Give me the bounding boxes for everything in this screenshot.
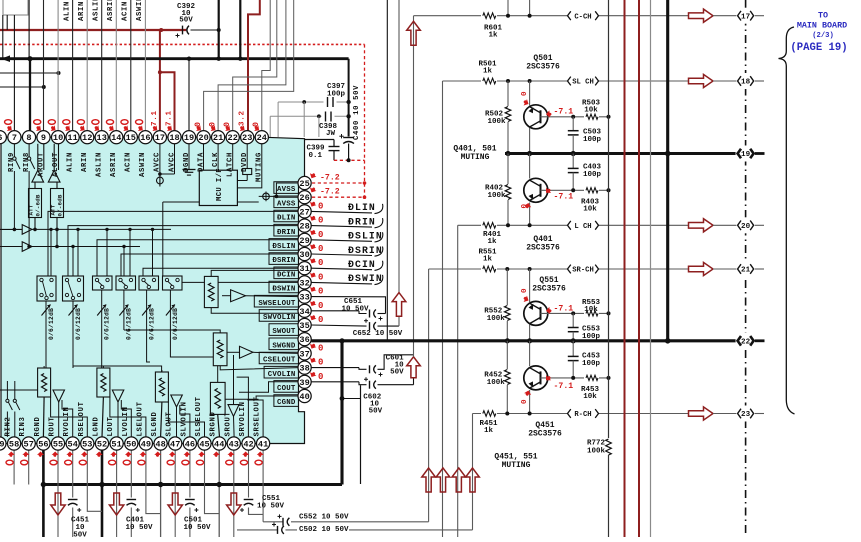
svg-text:JW: JW [326, 130, 336, 138]
svg-text:34: 34 [299, 307, 309, 317]
wire: thick vertical x=240.3 from top [239, 0, 241, 59]
capacitor C651 10 50V [311, 297, 385, 314]
variable attenuator 0/6/12dB 5 [146, 290, 148, 330]
svg-text:0/6/12dB: 0/6/12dB [75, 308, 82, 340]
IC block body (audio DSP/volume IC) [1, 137, 305, 443]
capacitor C652 10 50V [311, 325, 366, 326]
junction dots on black bus [27, 56, 32, 61]
signal arrow down (SR out) [227, 493, 241, 515]
pin 49 LSELOUT [139, 437, 152, 450]
wire: dark red branch to pin17/18 (7.1V) [159, 30, 161, 131]
svg-text:32: 32 [299, 278, 309, 288]
svg-text:0/6/12dB: 0/6/12dB [172, 308, 179, 340]
dash-dot board boundary line [745, 0, 747, 537]
capacitor C451 10 50V [68, 499, 78, 501]
svg-text:2SC3576: 2SC3576 [526, 244, 560, 253]
signal arrow up (C channel to C-CH row) [407, 21, 421, 45]
svg-text:MUTING: MUTING [502, 461, 531, 470]
SW channel resistor box [204, 276, 218, 307]
net DLIN [311, 211, 372, 213]
svg-text:15: 15 [126, 133, 136, 143]
svg-text:ĐCIN: ĐCIN [277, 271, 296, 279]
transistor Q551 (muting) [528, 267, 532, 271]
wire: DATA into MCU box [203, 144, 205, 170]
svg-text:100k: 100k [487, 315, 506, 323]
pin 28 ĐRIN [298, 219, 311, 232]
svg-text:LATCH: LATCH [227, 152, 235, 177]
svg-text:-7.1: -7.1 [554, 305, 574, 314]
connector <19> [736, 146, 756, 162]
connector <21> [736, 261, 756, 277]
wires: verticals from top to pins 9-16 [43, 0, 45, 131]
svg-text:0: 0 [318, 244, 323, 254]
pin 48 SLGND [154, 437, 167, 450]
svg-text:C652 10 50V: C652 10 50V [353, 330, 403, 338]
svg-text:36: 36 [299, 335, 309, 345]
svg-text:14: 14 [111, 133, 121, 143]
wire: mute control line x=608.5 [608, 0, 610, 438]
output stage amp triangle (group 2) [112, 390, 124, 402]
svg-text:41: 41 [258, 440, 268, 450]
wire: pin56 thick ground [42, 450, 45, 537]
svg-text:0: 0 [318, 372, 323, 382]
capacitor C501 10 50V [185, 499, 195, 501]
red 0 marker pin 35 [309, 313, 317, 321]
svg-text:ACIN: ACIN [125, 152, 133, 172]
svg-text:2SC3576: 2SC3576 [528, 430, 562, 439]
svg-text:57: 57 [24, 440, 34, 450]
svg-text:0/6/12dB: 0/6/12dB [48, 308, 55, 340]
svg-text:SRVOLIN: SRVOLIN [239, 401, 247, 436]
MCU I/F box [199, 170, 237, 205]
label -7.1 (Q451) [544, 374, 551, 382]
svg-text:10k: 10k [584, 306, 598, 314]
svg-text:SR-CH: SR-CH [572, 267, 594, 275]
net DCIN [311, 268, 372, 270]
svg-text:12: 12 [82, 133, 92, 143]
selector feed rail 1 [32, 228, 171, 230]
svg-text:1k: 1k [483, 256, 493, 264]
svg-text:17: 17 [741, 13, 751, 21]
net DRIN [311, 226, 372, 228]
channel label R-CH [567, 409, 599, 419]
signal arrows up (to mute transistors) [422, 468, 436, 492]
svg-text:23: 23 [242, 133, 252, 143]
svg-text:SLGND: SLGND [151, 411, 159, 436]
wire: Q401 base to mute line [541, 189, 609, 191]
wire: pin52 thick ground [101, 450, 104, 537]
wire: R-CH row [473, 413, 689, 415]
pin 39 COUT [298, 375, 311, 388]
wire: SR-CH row [429, 268, 689, 270]
svg-text:C400 10 50V: C400 10 50V [353, 85, 361, 140]
svg-text:ĐRIN: ĐRIN [277, 229, 296, 237]
svg-text:LVOLIN: LVOLIN [122, 406, 130, 436]
svg-text:25: 25 [299, 179, 309, 189]
pin 36 SWGND [298, 333, 311, 346]
wire: L-CH row [458, 224, 689, 226]
label -7.1 (Q501) [545, 110, 552, 118]
svg-text:MCU I/F: MCU I/F [216, 168, 224, 201]
svg-text:AVCC: AVCC [168, 152, 176, 172]
pin 6 partial [0, 131, 6, 144]
svg-text:TO: TO [818, 11, 828, 21]
svg-text:SWGND: SWGND [272, 342, 296, 350]
pin 53 RSELOUT [81, 437, 94, 450]
svg-text:DGND: DGND [183, 152, 191, 172]
svg-text:R-CH: R-CH [574, 411, 591, 419]
wire: vertical black x=387.3 [386, 0, 388, 341]
svg-text:100k: 100k [487, 118, 506, 126]
wire: thick vertical x=218.7 from top [218, 0, 220, 59]
svg-text:0: 0 [521, 91, 529, 96]
svg-text:52: 52 [97, 440, 107, 450]
pin 14 ASRIN [110, 131, 123, 144]
pin 18 AVCC [168, 131, 181, 144]
pin 33 SWSELOUT [298, 290, 311, 303]
output stage resistor box (group 4 SR) [210, 382, 225, 414]
label -7.1 (Q401) [544, 187, 551, 195]
input buffer triangle (left edge lower) [0, 246, 22, 248]
svg-text:13: 13 [97, 133, 107, 143]
svg-text:39: 39 [299, 378, 309, 388]
capacitor C400 10 50V (polarized) [343, 137, 354, 139]
svg-text:AVCC: AVCC [154, 152, 162, 172]
svg-text:0: 0 [318, 258, 323, 268]
channel label SL CH [567, 76, 599, 86]
svg-text:CGND: CGND [277, 399, 296, 407]
pin 31 ĐCIN [298, 262, 311, 275]
pin 52 LGND [95, 437, 108, 450]
wire: Q551 base to mute line [541, 312, 609, 314]
svg-text:SLSELOUT: SLSELOUT [195, 396, 203, 436]
red 0 marker pin 37 [309, 342, 317, 350]
svg-text:100k: 100k [487, 379, 506, 387]
input selector switch box 5 [139, 276, 159, 290]
pin 57 RIN3 [22, 437, 35, 450]
wire: SR channel vertical x=428.6 [428, 269, 430, 522]
selector feed rail 2 [32, 246, 140, 248]
svg-text:7.1: 7.1 [151, 110, 159, 126]
wires group 4 to pins [218, 414, 220, 437]
svg-text:22: 22 [228, 133, 238, 143]
svg-text:ATT: ATT [50, 204, 57, 215]
svg-text:0: 0 [318, 216, 323, 226]
amplifier triangle (ALOUT buffer) [48, 170, 60, 182]
svg-text:33: 33 [299, 293, 309, 303]
pin 55 ROUT [51, 437, 64, 450]
drops from rail2 [72, 247, 74, 277]
svg-text:-7.2: -7.2 [320, 174, 340, 183]
svg-text:CSELOUT: CSELOUT [263, 357, 296, 365]
red probe wedge pin25 [309, 171, 317, 179]
attenuator ATT 0/-6dB box 2 [51, 189, 64, 218]
variable attenuator 0/6/12dB 3 [101, 290, 103, 330]
svg-text:10k: 10k [583, 206, 597, 214]
svg-text:ARIN: ARIN [81, 152, 89, 172]
wire: black bus corner down to C400 [348, 59, 350, 137]
wire: dark red bus 1 x=624.5 [624, 0, 626, 537]
wire: C551 to C552 line [249, 508, 264, 515]
resistor R403 10k [584, 186, 599, 195]
cascade wires from selectors to output stages [101, 330, 103, 368]
svg-text:ATT: ATT [28, 204, 35, 215]
svg-text:CVOLIN: CVOLIN [268, 371, 296, 379]
svg-text:6: 6 [0, 133, 2, 143]
pin 47 SLOUT [169, 437, 182, 450]
variable attenuator 0/6/12dB 4 [123, 290, 125, 330]
wire: Q501 base to mute line [541, 116, 609, 118]
channel label L CH [567, 220, 599, 230]
svg-text:SRGND: SRGND [210, 411, 218, 436]
pin 8 RIN8 [22, 131, 35, 144]
pin 44 SRGND [213, 437, 226, 450]
capacitor C601 10 50V [311, 367, 359, 369]
signal arrow right row21 [689, 262, 714, 275]
black bus y=58.7 with left arrowhead [1, 55, 10, 62]
svg-text:10k: 10k [584, 107, 598, 115]
wire: thick black bus x=667.7 [666, 0, 669, 341]
signal arrow right row23 [689, 407, 714, 420]
connector <20> [736, 217, 756, 233]
svg-text:0/6/12dB: 0/6/12dB [104, 308, 111, 340]
red 0 marker pin 39 [309, 370, 317, 378]
wire: pin44 ground [218, 450, 220, 537]
switch on RIN3 line (bottom left) [14, 381, 16, 399]
output stage resistor box (group 2) [97, 368, 110, 397]
svg-text:CLK: CLK [212, 152, 220, 167]
svg-text:30: 30 [299, 250, 309, 260]
input buffer triangle (left edge upper) [0, 228, 22, 230]
red markers bottom pins [257, 451, 265, 458]
signal arrow down (SL out) [168, 493, 182, 515]
variable attenuator 0/6/12dB 1 [45, 301, 47, 368]
wire: pin7 from bus [13, 15, 15, 131]
svg-text:58: 58 [9, 440, 19, 450]
switch on RIN2 line (bottom left) [6, 381, 8, 399]
svg-text:47: 47 [170, 440, 180, 450]
red 0 marker pin 38 [309, 356, 317, 364]
svg-text:1k: 1k [483, 68, 493, 76]
svg-text:ĐCIN: ĐCIN [348, 259, 376, 270]
wire: L channel vertical x=457.7 [457, 225, 459, 537]
pin 29 ĐSLIN [298, 233, 311, 246]
wire: pin48 ground [160, 450, 162, 537]
capacitor C392 (on supply bus) [191, 29, 219, 31]
channel label SR-CH [567, 264, 599, 274]
selection lines from pins 27-32 into switch matrix [48, 211, 299, 276]
resistor R553 10k [584, 309, 599, 318]
signal arrow right row17 [689, 9, 714, 22]
pin 42 SRVOLIN [242, 437, 255, 450]
svg-text:LOUT: LOUT [107, 416, 115, 436]
svg-text:LGND: LGND [93, 416, 101, 436]
DGND ground symbol [188, 144, 190, 170]
svg-text:100p: 100p [327, 91, 346, 99]
svg-text:1k: 1k [488, 32, 498, 40]
svg-text:1k: 1k [487, 238, 497, 246]
wire: pin41 SRSELOUT down [262, 450, 264, 522]
svg-text:C502 10 50V: C502 10 50V [299, 526, 349, 534]
svg-text:0: 0 [521, 288, 529, 293]
pin 40 CGND [298, 389, 311, 402]
pin 59 partial [0, 437, 6, 450]
wire: pin53 RSELOUT elbow [87, 450, 102, 511]
svg-text:53: 53 [82, 440, 92, 450]
svg-text:COUT: COUT [277, 385, 296, 393]
pin 58 RIN2 [8, 437, 21, 450]
svg-text:10 50V: 10 50V [183, 524, 211, 532]
signal arrow right row20 [689, 219, 714, 232]
C channel amp triangle [240, 346, 253, 358]
wire: gray bus x=650.5 [650, 0, 652, 537]
svg-text:26: 26 [299, 193, 309, 203]
signal arrow right row18 [689, 74, 714, 87]
svg-text:2SC3576: 2SC3576 [526, 63, 560, 72]
wires group 1 to pins [42, 397, 45, 437]
svg-text:29: 29 [299, 236, 309, 246]
svg-text:ĐRIN: ĐRIN [348, 216, 376, 227]
svg-text:48: 48 [155, 440, 165, 450]
transistor Q401 (muting) [529, 154, 531, 179]
svg-text:0: 0 [222, 121, 232, 127]
channel label C-CH [567, 11, 599, 21]
capacitor C551 10 50V [244, 499, 254, 501]
pin 23 DVDD [241, 131, 254, 144]
resistor R502 100k [506, 79, 510, 83]
svg-text:16: 16 [140, 133, 150, 143]
label -7.1 (Q551) [545, 306, 552, 314]
svg-text:AVSS: AVSS [277, 200, 296, 208]
svg-text:0: 0 [318, 201, 323, 211]
svg-text:42: 42 [243, 440, 253, 450]
svg-text:-7.2: -7.2 [320, 188, 340, 197]
output stage amp triangle (group 1) [53, 390, 65, 402]
connector <23> [736, 406, 756, 422]
svg-text:MUTING: MUTING [461, 153, 490, 162]
signal arrow up (C channel) [407, 357, 421, 378]
pin 7 RIN9 [8, 131, 21, 144]
svg-text:37: 37 [299, 349, 309, 359]
svg-text:51: 51 [111, 440, 121, 450]
svg-text:SLOUT: SLOUT [166, 411, 174, 436]
resistor R451 1k [481, 409, 497, 418]
svg-text:10: 10 [53, 133, 63, 143]
wire: dark red bus 2 x=639 [638, 0, 640, 537]
pin 54 RVOLIN [66, 437, 79, 450]
svg-text:ASWIN: ASWIN [136, 0, 144, 21]
svg-text:AVSS: AVSS [277, 186, 296, 194]
wire: pin8 thick from bus junction [29, 59, 31, 131]
pin 11 ALIN [66, 131, 79, 144]
wire: SL channel vertical x=442.5 [442, 81, 444, 537]
input selector switch box 2 [63, 276, 84, 301]
svg-text:-7.1: -7.1 [554, 193, 574, 202]
switch on RIN8 input [28, 144, 30, 157]
wire: left input to pin9 node [0, 86, 44, 88]
wire: MUTING into MCU box [237, 144, 261, 188]
svg-text:ASRIN: ASRIN [110, 152, 118, 177]
svg-text:0: 0 [193, 121, 203, 127]
pin 34 SWVOLIN [298, 304, 311, 317]
transistor Q451 (muting) [529, 341, 531, 366]
thick bottom ground bus [42, 483, 342, 486]
input selector switch box 4 [116, 276, 136, 290]
top-left terminal box [3, 0, 28, 15]
signal arrow up (SW channel) [398, 316, 400, 326]
pin 30 ĐSRIN [298, 247, 311, 260]
svg-text:19: 19 [741, 151, 751, 159]
signal arrow down (R out) [51, 493, 65, 515]
resistor R501 1k [481, 76, 497, 85]
wires group 2 to pins [102, 397, 103, 437]
svg-text:-7.1: -7.1 [554, 108, 574, 117]
amplifier triangle (AROUT buffer) [32, 170, 44, 182]
svg-text:8: 8 [26, 133, 31, 143]
wire: C-CH row [414, 15, 689, 17]
svg-text:0: 0 [318, 287, 323, 297]
svg-text:56: 56 [38, 440, 48, 450]
svg-text:7.1: 7.1 [166, 110, 174, 126]
wire: R channel vertical x=472.5 [472, 414, 474, 530]
resistor R452 100k [506, 341, 508, 369]
pin 45 SLSELOUT [198, 437, 211, 450]
svg-text:22: 22 [741, 339, 751, 347]
junction dots bottom ground bus [41, 482, 46, 487]
connector <18> [736, 73, 756, 89]
svg-text:ALOUT: ALOUT [52, 152, 60, 177]
pin 50 LVOLIN [125, 437, 138, 450]
capacitor C602 10 50V [311, 381, 359, 383]
svg-text:ARIN: ARIN [78, 1, 86, 21]
svg-text:ĐLIN: ĐLIN [277, 215, 296, 223]
svg-text:SWOUT: SWOUT [272, 328, 296, 336]
svg-text:23: 23 [741, 411, 751, 419]
svg-text:SRSELOUT: SRSELOUT [254, 396, 262, 436]
svg-text:(PAGE 19): (PAGE 19) [790, 42, 847, 54]
svg-text:LSELOUT: LSELOUT [136, 401, 144, 436]
svg-text:55: 55 [53, 440, 63, 450]
SW channel amp triangle [231, 290, 246, 302]
pin 15 ACIN [124, 131, 137, 144]
signal arrow down (L out) [109, 493, 123, 515]
wire: CLK into MCU box [217, 144, 219, 170]
svg-text:20: 20 [198, 133, 208, 143]
pin 13 ASLIN [95, 131, 108, 144]
pin 24 MUTING [255, 131, 268, 144]
resistor R402 100k [507, 154, 509, 185]
svg-text:0/6/12dB: 0/6/12dB [148, 308, 155, 340]
red dashed rail y=44.4 [0, 43, 365, 45]
svg-text:19: 19 [184, 133, 194, 143]
resistor R503 10k [584, 112, 599, 121]
svg-text:100k: 100k [587, 448, 606, 456]
svg-text:-7.1: -7.1 [554, 382, 574, 391]
svg-text:0: 0 [318, 272, 323, 282]
variable attenuator 0/6/12dB 6 [169, 290, 171, 330]
pin 46 SLVOLIN [183, 437, 196, 450]
svg-text:100p: 100p [582, 360, 601, 368]
switch on RIN9 input [13, 144, 15, 157]
svg-text:50V: 50V [369, 408, 383, 416]
svg-text:MUTING: MUTING [256, 152, 264, 182]
pin 9 AROUT [37, 131, 50, 144]
svg-text:0/-6dB: 0/-6dB [35, 194, 42, 216]
svg-text:38: 38 [299, 364, 309, 374]
capacitor C453 100p [572, 341, 574, 356]
svg-text:0: 0 [318, 343, 323, 353]
resistor R552 100k [505, 267, 509, 271]
